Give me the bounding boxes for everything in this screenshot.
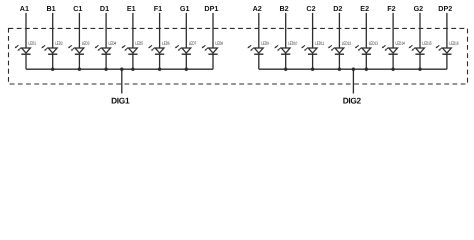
- wire F2 lead: [392, 13, 394, 48]
- wire LED12 cathode to bus: [338, 54, 340, 69]
- wire LED15 cathode to bus: [419, 54, 421, 69]
- wire G2 lead: [419, 13, 421, 48]
- junction: [311, 68, 314, 71]
- LED LED14: [382, 41, 405, 55]
- LED LED4: [95, 41, 117, 55]
- wire LED9 cathode to bus: [258, 54, 260, 69]
- wire D1 lead: [105, 13, 107, 48]
- junction: [284, 68, 287, 71]
- wire G1 lead: [185, 13, 187, 48]
- wire LED11 cathode to bus: [312, 54, 314, 69]
- wire C1 lead: [78, 13, 80, 48]
- LED LED8: [202, 41, 224, 55]
- svg-text:LED3: LED3: [82, 41, 90, 46]
- svg-text:B1: B1: [46, 4, 55, 13]
- svg-text:LED15: LED15: [422, 41, 432, 46]
- LED LED9: [247, 41, 269, 55]
- svg-text:LED4: LED4: [108, 41, 116, 46]
- wire LED13 cathode to bus: [365, 54, 367, 69]
- svg-text:LED6: LED6: [162, 41, 170, 46]
- LED LED13: [355, 41, 378, 55]
- svg-text:F2: F2: [387, 4, 395, 13]
- LED LED12: [328, 41, 351, 55]
- junction: [365, 68, 368, 71]
- svg-text:A2: A2: [253, 4, 262, 13]
- svg-text:G1: G1: [180, 4, 190, 13]
- wire D2 lead: [338, 13, 340, 48]
- wire DIG1 lead: [121, 69, 123, 93]
- LED LED3: [68, 41, 90, 55]
- LED LED15: [409, 41, 432, 55]
- svg-text:C2: C2: [306, 4, 315, 13]
- wire LED4 cathode to bus: [105, 54, 107, 69]
- wire DIG1 cathode bus: [26, 68, 213, 70]
- LED LED16: [436, 41, 459, 55]
- svg-text:DIG2: DIG2: [343, 96, 362, 106]
- wire DIG2 cathode bus: [259, 68, 447, 70]
- wire B1 lead: [52, 13, 54, 48]
- svg-text:A1: A1: [20, 4, 29, 13]
- junction: [131, 68, 134, 71]
- svg-text:B2: B2: [279, 4, 288, 13]
- svg-text:LED8: LED8: [215, 41, 223, 46]
- svg-text:G2: G2: [414, 4, 424, 13]
- svg-text:LED16: LED16: [449, 41, 459, 46]
- svg-text:LED14: LED14: [395, 41, 405, 46]
- wire DIG2 lead: [352, 69, 354, 93]
- LED LED2: [41, 41, 63, 55]
- junction: [185, 68, 188, 71]
- svg-text:D1: D1: [100, 4, 109, 13]
- svg-text:LED7: LED7: [189, 41, 197, 46]
- wire LED10 cathode to bus: [285, 54, 287, 69]
- junction: [391, 68, 394, 71]
- dashed component outline box: [9, 28, 468, 84]
- wire E2 lead: [365, 13, 367, 48]
- svg-text:LED12: LED12: [342, 41, 352, 46]
- svg-text:LED13: LED13: [369, 41, 379, 46]
- wire LED8 cathode to bus: [212, 54, 214, 69]
- wire LED7 cathode to bus: [185, 54, 187, 69]
- svg-text:E2: E2: [360, 4, 369, 13]
- svg-text:LED5: LED5: [135, 41, 143, 46]
- svg-text:DP1: DP1: [204, 4, 218, 13]
- wire F1 lead: [159, 13, 161, 48]
- junction: [78, 68, 81, 71]
- LED LED11: [301, 41, 324, 55]
- wire DP2 lead: [446, 13, 448, 48]
- svg-text:LED1: LED1: [28, 41, 36, 46]
- svg-text:LED11: LED11: [315, 41, 325, 46]
- junction DIG1 tap: [120, 68, 123, 71]
- LED LED6: [148, 41, 170, 55]
- svg-text:F1: F1: [154, 4, 162, 13]
- svg-text:DP2: DP2: [438, 4, 452, 13]
- junction: [418, 68, 421, 71]
- wire C2 lead: [312, 13, 314, 48]
- wire LED16 cathode to bus: [446, 54, 448, 69]
- wire DP1 lead: [212, 13, 214, 48]
- wire LED1 cathode to bus: [25, 54, 27, 69]
- svg-text:LED10: LED10: [288, 41, 298, 46]
- wire E1 lead: [132, 13, 134, 48]
- svg-text:D2: D2: [333, 4, 342, 13]
- LED LED7: [175, 41, 197, 55]
- svg-text:LED9: LED9: [261, 41, 269, 46]
- svg-text:C1: C1: [73, 4, 82, 13]
- junction: [51, 68, 54, 71]
- wire A1 lead: [25, 13, 27, 48]
- wire B2 lead: [285, 13, 287, 48]
- svg-text:LED2: LED2: [55, 41, 63, 46]
- wire LED2 cathode to bus: [52, 54, 54, 69]
- LED LED1: [15, 41, 37, 55]
- wire LED14 cathode to bus: [392, 54, 394, 69]
- wire LED3 cathode to bus: [78, 54, 80, 69]
- junction: [104, 68, 107, 71]
- LED LED10: [274, 41, 297, 55]
- LED LED5: [122, 41, 144, 55]
- wire A2 lead: [258, 13, 260, 48]
- junction: [158, 68, 161, 71]
- svg-text:E1: E1: [127, 4, 136, 13]
- junction DIG2 tap: [352, 68, 355, 71]
- wire LED6 cathode to bus: [159, 54, 161, 69]
- svg-text:DIG1: DIG1: [111, 96, 130, 106]
- wire LED5 cathode to bus: [132, 54, 134, 69]
- junction: [338, 68, 341, 71]
